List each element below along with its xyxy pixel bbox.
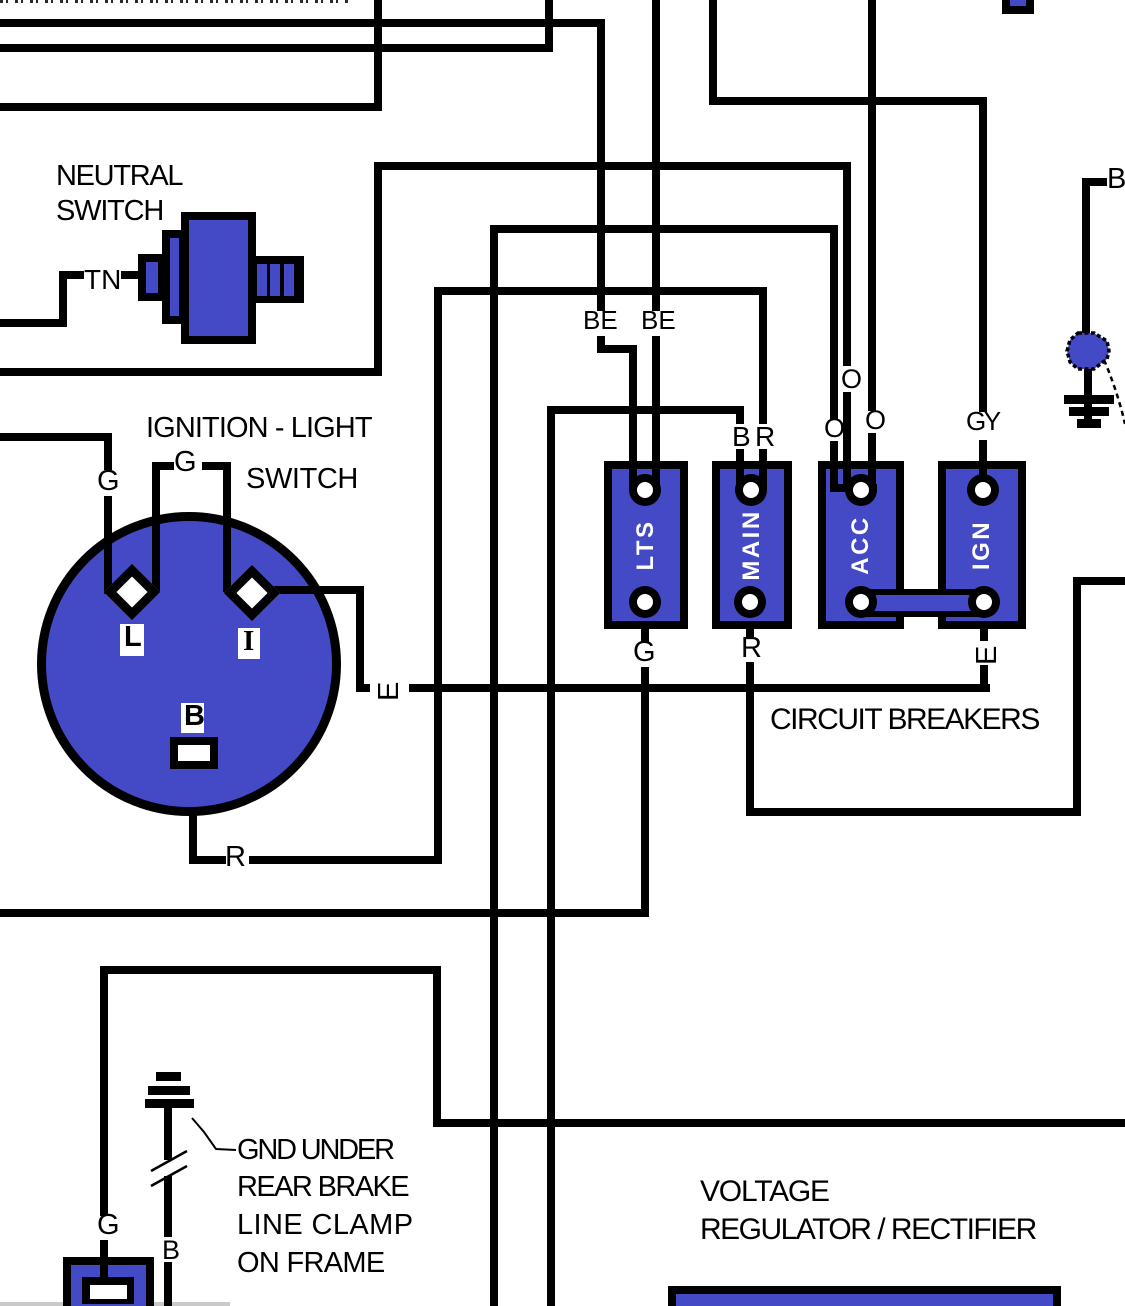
wire TN corner vertical xyxy=(59,271,67,327)
label I on switch xyxy=(238,628,260,659)
wire horizontal y970 xyxy=(100,966,441,974)
wire B-gnd stem lower xyxy=(164,1262,172,1306)
wire O right vertical lower into ACC xyxy=(868,433,876,490)
ignition switch pin B rectangle xyxy=(170,737,218,769)
wire BE2 vertical into LTS xyxy=(652,336,660,490)
terminal ACC bottom xyxy=(845,586,877,618)
ground symbol right xyxy=(1064,395,1114,404)
wire B-topright stub xyxy=(1082,178,1107,186)
wire label B bottom xyxy=(162,1237,180,1264)
wire vertical x438 xyxy=(434,287,442,864)
wire E-ign vertical upper xyxy=(980,602,988,641)
wire G2 stub left xyxy=(152,462,174,470)
ground symbol bottom left xyxy=(156,1072,181,1081)
wire label O mid xyxy=(841,366,862,393)
wire G2 right vertical to I pin xyxy=(223,462,231,592)
label SWITCH (neutral) xyxy=(56,197,163,226)
wire ACC internal bar xyxy=(830,484,877,492)
circuit breaker LTS box xyxy=(604,461,688,629)
wire G2 left vertical to L pin xyxy=(152,462,160,592)
wire O left vertical upper xyxy=(830,233,838,419)
wire horizontal y1123 to edge xyxy=(433,1119,1125,1127)
wire O mid vertical lower into ACC xyxy=(843,392,851,492)
wire R-main-bot vertical upper xyxy=(746,602,754,639)
neutral switch main body xyxy=(181,212,256,344)
wire G2 stub right xyxy=(202,462,231,470)
label IGNITION - LIGHT xyxy=(146,414,372,443)
wire TN horizontal from left edge xyxy=(0,319,67,327)
wire G-bot vertical into box xyxy=(100,1240,108,1280)
wire top bus 1 corner vertical x600 xyxy=(597,19,605,311)
terminal LTS bottom xyxy=(629,586,661,618)
wire ignition B vertical xyxy=(189,769,197,864)
label SWITCH (ignition) xyxy=(246,465,358,494)
wire label O left xyxy=(824,415,845,442)
circuit breaker MAIN box xyxy=(712,461,792,629)
wire G1 horizontal from left edge xyxy=(0,433,112,441)
circuit breaker ACC label xyxy=(849,485,873,605)
circuit breaker LTS label xyxy=(634,485,658,605)
label REGULATOR / RECTIFIER xyxy=(700,1215,1036,1245)
wire x713 vertical from top xyxy=(709,0,717,105)
neutral switch small left part xyxy=(138,254,166,301)
wire B-main vertical upper xyxy=(736,414,744,424)
wire label R above MAIN xyxy=(755,423,775,451)
wire TN stub right xyxy=(121,271,140,279)
wire horizontal y291 xyxy=(434,287,767,295)
ignition switch body circle xyxy=(37,512,341,816)
wire label B above MAIN xyxy=(732,423,751,451)
voltage regulator box xyxy=(668,1286,1061,1306)
terminal MAIN bottom xyxy=(734,586,766,618)
wire R vertical x1077 xyxy=(1073,577,1081,816)
label I letter xyxy=(243,627,254,656)
wire B-topright vertical xyxy=(1082,178,1090,334)
wire label BE 1 xyxy=(583,307,618,333)
wire label E (rotated) below IGN xyxy=(973,641,995,665)
terminal LTS top xyxy=(629,474,661,506)
wire R horizontal y581 to edge xyxy=(1073,577,1125,585)
wire R-main vertical lower into MAIN xyxy=(759,449,767,490)
label CIRCUIT BREAKERS xyxy=(770,705,1039,735)
wire vertical x494 long xyxy=(490,225,498,1306)
wire G-bot vertical upper xyxy=(100,966,108,1216)
neutral switch mid part xyxy=(162,230,187,324)
wire label B top right xyxy=(1107,165,1125,194)
wire top bus 2 corner vertical x549 xyxy=(545,0,553,52)
label L on switch xyxy=(120,624,144,656)
wire O left vertical lower into ACC xyxy=(830,441,838,492)
bottom left component inner contact xyxy=(82,1277,134,1304)
label L letter xyxy=(124,623,142,652)
wire B-main vertical lower into MAIN xyxy=(736,449,744,490)
wire label GY xyxy=(966,408,999,434)
wire O mid vertical upper xyxy=(843,170,851,366)
wire label G below LTS xyxy=(633,638,656,667)
wire horizontal y410 xyxy=(547,406,744,414)
scan artifact gray strip xyxy=(0,1302,230,1306)
wire E bus horizontal y688 xyxy=(409,684,990,692)
wire label O right xyxy=(865,407,886,434)
terminal ACC top xyxy=(845,474,877,506)
wire BE1 vertical below label xyxy=(597,336,605,353)
wire horizontal y101 to GY xyxy=(709,97,987,105)
wire hex ground stem xyxy=(1084,369,1092,420)
terminal IGN top xyxy=(967,474,999,506)
circuit breaker MAIN label xyxy=(740,485,764,605)
wire label BE 2 xyxy=(641,307,676,333)
wire label R ignition xyxy=(225,843,246,872)
wire B-gnd stem middle xyxy=(164,1176,172,1237)
wire vertical x437 lower xyxy=(433,966,441,1127)
wire G-lts vertical lower xyxy=(641,667,649,917)
wire BE2 vertical from top xyxy=(652,0,660,311)
note LINE CLAMP xyxy=(237,1211,413,1240)
wire BE1 vertical into LTS xyxy=(629,345,637,490)
wire B-gnd stem upper xyxy=(164,1104,172,1160)
wire BE1 jog horizontal xyxy=(597,345,637,353)
note ON FRAME xyxy=(237,1249,384,1278)
wire label G upper left xyxy=(97,467,120,496)
wire R-main vertical upper xyxy=(759,295,767,424)
note GND UNDER xyxy=(237,1136,393,1165)
wire label E (rotated) near switch xyxy=(375,677,397,701)
wire label R below MAIN xyxy=(741,634,762,663)
wire I pin foot xyxy=(356,684,370,692)
wire top bus 2 horizontal xyxy=(0,44,553,52)
wire R-ign horizontal right part xyxy=(249,856,442,864)
wire vertical x551 long xyxy=(547,406,555,1306)
wire R-ign horizontal left part xyxy=(189,856,226,864)
circuit breaker ACC box xyxy=(818,461,904,629)
circuit breaker IGN box xyxy=(938,461,1026,629)
wire label TN xyxy=(84,266,121,294)
wire R horizontal y812 xyxy=(746,808,1081,816)
wire G bus horizontal y913 xyxy=(0,909,649,917)
bottom left component box xyxy=(63,1257,154,1306)
wire GY vertical upper xyxy=(979,97,987,412)
connector stub top right xyxy=(1002,0,1034,14)
wire TN stub left xyxy=(59,271,84,279)
wire GY vertical into IGN xyxy=(979,440,987,490)
note REAR BRAKE xyxy=(237,1173,408,1202)
wire label G bottom xyxy=(97,1211,120,1240)
wire top bus 3 horizontal xyxy=(0,103,382,111)
link bar between ACC and IGN xyxy=(859,589,986,617)
label NEUTRAL xyxy=(56,162,182,191)
wire label G switch top xyxy=(174,448,197,477)
wire R-main-bot vertical lower xyxy=(746,662,754,816)
wire E bus corner vertical below IGN xyxy=(980,665,988,692)
cropped text remnant top edge xyxy=(0,0,348,3)
wire I pin vertical down xyxy=(356,586,364,692)
label VOLTAGE xyxy=(700,1177,829,1207)
wire horizontal y229 xyxy=(490,225,838,233)
wire staple vertical x378 xyxy=(374,162,382,376)
wire staple horizontal y372 xyxy=(0,368,382,376)
wire staple horizontal y166 xyxy=(374,162,851,170)
wire G1 vertical below label xyxy=(104,496,112,594)
wire G1 vertical above label xyxy=(104,433,112,470)
neutral switch right connector xyxy=(254,256,304,303)
terminal MAIN top xyxy=(735,474,767,506)
label B letter xyxy=(184,702,205,731)
wire top bus 1 horizontal xyxy=(0,19,605,27)
wire I pin horizontal xyxy=(270,586,364,594)
circuit breaker IGN label xyxy=(970,485,994,605)
ignition switch pin L diamond xyxy=(104,564,161,621)
ignition switch pin I diamond xyxy=(224,565,281,622)
label B on switch xyxy=(181,703,204,733)
wire O right vertical from top xyxy=(868,0,876,411)
terminal IGN bottom xyxy=(968,586,1000,618)
wire top bus 3 corner vertical x378 xyxy=(374,0,382,111)
wire G-lts vertical upper xyxy=(641,602,649,643)
hex connector top right xyxy=(1062,328,1122,378)
